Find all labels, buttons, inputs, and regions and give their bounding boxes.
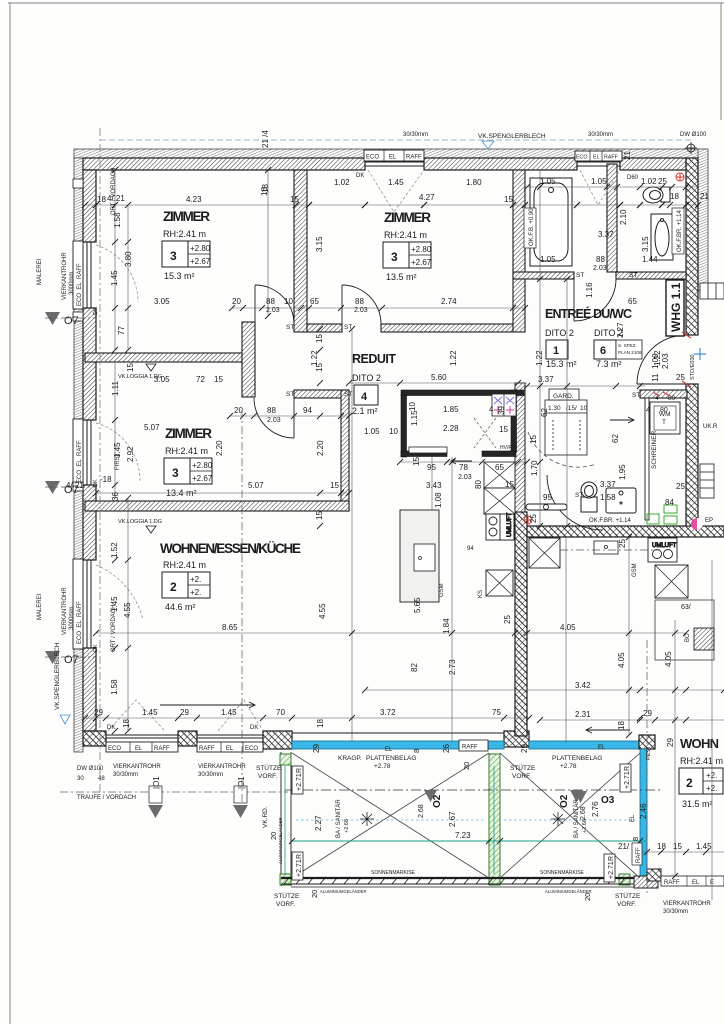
svg-text:DK: DK bbox=[356, 173, 364, 179]
svg-text:O7: O7 bbox=[64, 484, 79, 496]
exterior wall right upper bbox=[686, 158, 698, 335]
neighbor south wall block bbox=[634, 876, 658, 888]
door ZIMMER1 bbox=[255, 285, 294, 324]
dimension texts corridor 5.60 + 1.22 bbox=[310, 350, 662, 382]
svg-text:30/30mm: 30/30mm bbox=[198, 772, 223, 778]
svg-text:2.68: 2.68 bbox=[418, 804, 425, 818]
svg-text:1.45: 1.45 bbox=[110, 270, 119, 286]
kitchen hob circles + UMLUFT bbox=[486, 512, 514, 540]
svg-text:R: R bbox=[296, 854, 303, 859]
O7 marker 1 bbox=[45, 312, 96, 327]
dimension texts corridor row bbox=[154, 230, 658, 314]
dim line corridor row bbox=[232, 307, 525, 309]
svg-text:3: 3 bbox=[391, 250, 398, 264]
svg-text:RH:2.41 m: RH:2.41 m bbox=[680, 756, 723, 766]
svg-text:62: 62 bbox=[540, 408, 549, 417]
svg-text:STÜTZE: STÜTZE bbox=[615, 892, 641, 900]
svg-text:ECO: ECO bbox=[576, 155, 587, 161]
svg-text:2.28: 2.28 bbox=[443, 424, 459, 433]
corner pier neighbor window bbox=[639, 735, 655, 749]
svg-text:VK.SPENGLERBLECH: VK.SPENGLERBLECH bbox=[478, 133, 546, 140]
MALEREI labels bbox=[37, 258, 43, 620]
window left 2 glazing bbox=[83, 420, 96, 485]
svg-text:48: 48 bbox=[98, 776, 105, 782]
toilet WC top bbox=[643, 187, 670, 203]
svg-text:+2.80: +2.80 bbox=[192, 461, 213, 470]
svg-text:+2.68: +2.68 bbox=[344, 819, 350, 833]
svg-text:+2.71: +2.71 bbox=[624, 771, 631, 789]
svg-text:UMLUFT: UMLUFT bbox=[507, 512, 513, 537]
svg-text:65: 65 bbox=[310, 297, 319, 306]
balcony snowflake right bbox=[551, 812, 565, 826]
neighbor kitchen crossed box 2 bbox=[655, 565, 688, 598]
svg-text:EL: EL bbox=[593, 155, 600, 161]
svg-text:82: 82 bbox=[410, 663, 419, 672]
dim line 2.31 row bbox=[540, 719, 724, 721]
svg-text:BA / SANITÄR: BA / SANITÄR bbox=[573, 799, 580, 838]
svg-text:29: 29 bbox=[666, 738, 675, 747]
balcony middle column strip bbox=[489, 754, 500, 885]
svg-text:WOHN: WOHN bbox=[680, 736, 719, 751]
svg-text:25: 25 bbox=[676, 373, 685, 382]
svg-text:2.74: 2.74 bbox=[441, 297, 457, 306]
dim line bath row bbox=[527, 186, 698, 188]
svg-text:EL: EL bbox=[598, 745, 606, 751]
dimension texts rotated left side bbox=[110, 187, 650, 728]
schreiner niche left wall thin bbox=[645, 398, 649, 520]
REDUIT room walls bbox=[401, 390, 524, 457]
21/4 rotated top bbox=[261, 130, 632, 193]
washbasin DU/WC bbox=[606, 488, 636, 513]
svg-text:78: 78 bbox=[459, 463, 468, 472]
svg-text:20: 20 bbox=[310, 890, 319, 898]
svg-text:O2: O2 bbox=[559, 794, 570, 808]
svg-text:R: R bbox=[608, 856, 615, 861]
svg-text:1.70: 1.70 bbox=[530, 460, 539, 476]
bottom margin annotations bbox=[77, 745, 711, 915]
svg-text:RAFF: RAFF bbox=[604, 155, 619, 161]
svg-text:ECO: ECO bbox=[108, 746, 121, 752]
svg-text:15: 15 bbox=[126, 363, 135, 372]
svg-text:VIERKANTROHR: VIERKANTROHR bbox=[663, 901, 711, 907]
svg-text:30: 30 bbox=[77, 776, 84, 782]
svg-text:4.55: 4.55 bbox=[318, 603, 327, 619]
svg-text:+2.71: +2.71 bbox=[296, 859, 303, 877]
exterior wall top segment A bbox=[83, 158, 365, 170]
KS crossed box kitchen bbox=[486, 570, 513, 596]
KS labels bbox=[478, 590, 484, 598]
shower tray crossed bbox=[484, 462, 515, 488]
svg-text:3.37: 3.37 bbox=[538, 375, 554, 384]
svg-text:62: 62 bbox=[611, 434, 620, 443]
svg-text:4: 4 bbox=[655, 395, 659, 402]
window swing arcs dashed left wall bbox=[96, 245, 143, 620]
svg-text:ZIMMER: ZIMMER bbox=[165, 426, 212, 441]
wall right of ZIMMER2 / bath left bbox=[513, 170, 525, 332]
O7 marker 3 bbox=[45, 651, 96, 666]
DK labels left windows bbox=[93, 307, 99, 652]
svg-text:-18: -18 bbox=[100, 475, 112, 484]
svg-text:/15/: /15/ bbox=[566, 405, 577, 412]
svg-text:10: 10 bbox=[580, 405, 588, 412]
svg-text:STÜTZE: STÜTZE bbox=[510, 764, 536, 772]
svg-text:15: 15 bbox=[505, 480, 514, 489]
svg-text:8: 8 bbox=[631, 837, 640, 841]
svg-text:+2.67: +2.67 bbox=[411, 258, 432, 267]
svg-text:+2.78: +2.78 bbox=[374, 763, 391, 770]
svg-text:21: 21 bbox=[623, 151, 632, 160]
svg-text:29: 29 bbox=[180, 708, 189, 717]
svg-text:15: 15 bbox=[330, 481, 339, 490]
wall between ZIMMER1 and ZIMMER2 bbox=[294, 170, 307, 332]
vertical guide x452 bbox=[451, 457, 453, 741]
bath bottom wall east bbox=[616, 272, 686, 279]
svg-text:DK: DK bbox=[93, 479, 99, 487]
svg-text:+2.: +2. bbox=[190, 575, 201, 584]
svg-text:18: 18 bbox=[670, 192, 679, 201]
svg-text:EL: EL bbox=[692, 880, 700, 886]
svg-text:4.05: 4.05 bbox=[560, 623, 576, 632]
window left 3 glazing bbox=[83, 560, 96, 648]
svg-text:+2.80: +2.80 bbox=[190, 244, 211, 253]
svg-text:65: 65 bbox=[495, 463, 504, 472]
svg-text:13.5 m²: 13.5 m² bbox=[386, 272, 417, 282]
vertical guide x629 bbox=[628, 537, 630, 735]
VK.RD. label bbox=[262, 806, 269, 828]
svg-text:5.07: 5.07 bbox=[248, 481, 264, 490]
kitchen island bbox=[400, 510, 439, 602]
balcony blue dashed inner lines bbox=[296, 790, 636, 820]
svg-text:75: 75 bbox=[492, 708, 501, 717]
svg-text:MALEREI: MALEREI bbox=[37, 593, 43, 620]
svg-text:RAFF: RAFF bbox=[406, 155, 422, 161]
dimension texts bottom row bbox=[94, 708, 529, 753]
svg-text:44.6 m²: 44.6 m² bbox=[165, 602, 196, 612]
svg-text:2.03: 2.03 bbox=[267, 417, 281, 424]
toilet DU/WC bbox=[581, 482, 597, 512]
OK.F.BR +1.14 rotated WC bbox=[672, 208, 684, 254]
room label REDUIT bbox=[352, 352, 396, 416]
door bath bbox=[574, 279, 616, 321]
svg-text:30/30mm: 30/30mm bbox=[403, 132, 428, 138]
svg-text:1.05: 1.05 bbox=[591, 177, 607, 186]
svg-text:+2.71: +2.71 bbox=[296, 773, 303, 791]
svg-text:20: 20 bbox=[462, 762, 471, 770]
svg-text:18: 18 bbox=[261, 184, 270, 193]
exterior wall top segment B bbox=[424, 158, 577, 170]
roof edge strip top bbox=[74, 149, 700, 158]
svg-text:ST: ST bbox=[286, 324, 294, 331]
svg-text:RH:2.41 m: RH:2.41 m bbox=[165, 446, 208, 456]
svg-text:2.92: 2.92 bbox=[126, 446, 135, 462]
svg-text:VORF.: VORF. bbox=[276, 901, 295, 908]
svg-text:7.3 m²: 7.3 m² bbox=[596, 359, 622, 369]
svg-text:3000mm: 3000mm bbox=[69, 607, 75, 630]
neighbor dashdot horizontal y550 bbox=[560, 549, 660, 551]
REDUIT shelf bbox=[409, 447, 447, 453]
vertical guide x567 bbox=[566, 279, 568, 526]
ZIMMER1 bottom wall bbox=[85, 353, 242, 362]
svg-text:ST: ST bbox=[286, 391, 294, 398]
svg-text:1.58: 1.58 bbox=[600, 493, 616, 502]
svg-text:3.37: 3.37 bbox=[600, 480, 616, 489]
svg-text:VK.LOGGIA 1.DG: VK.LOGGIA 1.DG bbox=[118, 519, 162, 525]
svg-text:26: 26 bbox=[442, 744, 451, 753]
svg-text:2.10: 2.10 bbox=[619, 209, 628, 225]
svg-text:1.84: 1.84 bbox=[442, 618, 451, 634]
roof edge strip left bbox=[74, 158, 83, 752]
RAFF box rotated neighbor window bbox=[632, 843, 642, 865]
svg-text:ZIMMER: ZIMMER bbox=[163, 209, 210, 224]
svg-text:ST: ST bbox=[344, 391, 352, 398]
svg-text:25: 25 bbox=[618, 539, 627, 548]
svg-text:O3: O3 bbox=[601, 795, 615, 806]
svg-text:DK: DK bbox=[93, 644, 99, 652]
green electro boxes kitchen bbox=[647, 505, 677, 524]
DU/WC counter shelf bbox=[526, 504, 567, 510]
svg-text:2: 2 bbox=[686, 776, 693, 790]
room label ZIMMER 2 bbox=[383, 210, 432, 282]
svg-text:3.05: 3.05 bbox=[154, 297, 170, 306]
svg-text:VIERKANTROHR: VIERKANTROHR bbox=[62, 252, 68, 300]
svg-text:STÜTZE: STÜTZE bbox=[274, 892, 300, 900]
svg-text:94: 94 bbox=[467, 546, 474, 552]
svg-text:VIERKANTROHR: VIERKANTROHR bbox=[62, 587, 68, 635]
svg-text:O7: O7 bbox=[64, 315, 79, 327]
railing hatch ticks bbox=[284, 878, 625, 884]
svg-text:8.65: 8.65 bbox=[222, 623, 238, 632]
exterior wall left segment 4 bbox=[83, 648, 96, 731]
svg-text:95: 95 bbox=[543, 493, 552, 502]
WHG 1.1 box bbox=[666, 280, 684, 336]
svg-text:1.58: 1.58 bbox=[110, 679, 119, 695]
svg-text:KS: KS bbox=[478, 590, 484, 598]
svg-text:ENTREÉ DU/WC: ENTREÉ DU/WC bbox=[545, 306, 632, 321]
svg-text:+2.71: +2.71 bbox=[608, 861, 615, 879]
svg-text:DW Ø100: DW Ø100 bbox=[680, 132, 707, 138]
exterior wall top segment C bbox=[620, 158, 686, 170]
svg-text:VORF.: VORF. bbox=[512, 773, 531, 780]
svg-text:20: 20 bbox=[269, 832, 278, 840]
svg-text:HV/RV: HV/RV bbox=[500, 445, 516, 451]
balcony column SW bottom bbox=[280, 874, 291, 885]
svg-text:20: 20 bbox=[583, 893, 592, 901]
wall reduit east hatch bbox=[515, 383, 525, 512]
svg-text:29: 29 bbox=[520, 744, 529, 753]
dim line top row bbox=[85, 204, 698, 206]
svg-text:15: 15 bbox=[412, 457, 421, 466]
room label WOHN neighbor bbox=[679, 736, 723, 809]
svg-text:15: 15 bbox=[315, 511, 324, 520]
svg-text:3.05: 3.05 bbox=[154, 375, 170, 384]
corner block bottom-left crosshatch bbox=[83, 731, 106, 746]
svg-text:O2: O2 bbox=[432, 794, 443, 808]
svg-text:|O1: |O1 bbox=[237, 776, 246, 789]
dashed line top bbox=[100, 139, 692, 141]
WM T labels bbox=[655, 395, 676, 426]
balcony column SW top bbox=[280, 754, 291, 765]
svg-text:RAFF: RAFF bbox=[636, 847, 642, 863]
vertical guide x675 bbox=[674, 620, 676, 876]
svg-text:ST: ST bbox=[632, 392, 640, 399]
dimension texts wohnen bbox=[222, 623, 675, 747]
svg-text:11: 11 bbox=[651, 373, 660, 382]
svg-text:REDUIT: REDUIT bbox=[352, 352, 396, 366]
dimension slash ticks bbox=[82, 167, 724, 879]
dim line z3 bottom row bbox=[96, 492, 349, 494]
door ZIMMER3 bbox=[254, 398, 294, 438]
svg-text:PLATTENBELAG: PLATTENBELAG bbox=[366, 755, 416, 762]
svg-text:15.3 m²: 15.3 m² bbox=[546, 359, 577, 369]
OK.F.BR +1.14 kitchen text bbox=[589, 518, 632, 524]
REDUIT washer-dryer unit bbox=[492, 394, 516, 416]
svg-text:95: 95 bbox=[427, 463, 436, 472]
svg-text:EL: EL bbox=[389, 155, 397, 161]
shower dashed arc bbox=[528, 432, 596, 467]
dim line entree 3.37 bbox=[527, 385, 645, 387]
4/21 labels margin bbox=[107, 194, 125, 203]
dim line 3.42 row bbox=[365, 689, 724, 691]
kitchen party wall vertical bbox=[515, 512, 527, 736]
vertical left margin guides bbox=[114, 170, 116, 350]
svg-text:7.23: 7.23 bbox=[455, 831, 471, 840]
svg-text:18: 18 bbox=[617, 721, 626, 730]
svg-text:1.11: 1.11 bbox=[111, 380, 120, 396]
svg-text:MALEREI: MALEREI bbox=[37, 258, 43, 285]
svg-text:KRAGP.: KRAGP. bbox=[338, 755, 362, 762]
svg-text:2.27: 2.27 bbox=[314, 815, 323, 831]
REDUIT door dashed bbox=[474, 418, 496, 448]
svg-text:DK: DK bbox=[93, 307, 99, 315]
svg-text:4: 4 bbox=[361, 391, 368, 403]
bottom glazed wall blue WOHNEN bbox=[292, 733, 504, 751]
teal verticals at columns bbox=[285, 766, 494, 874]
section line O2-O2 bbox=[285, 790, 660, 802]
svg-text:84: 84 bbox=[665, 498, 674, 507]
window swing arcs dashed bottom wall bbox=[108, 700, 263, 731]
door kitchen passage arc bbox=[547, 475, 602, 530]
arrows wohnen bbox=[160, 417, 634, 733]
svg-text:UK.R: UK.R bbox=[703, 424, 718, 430]
svg-text:3000mm: 3000mm bbox=[69, 272, 75, 295]
roof edge strip right bbox=[698, 149, 708, 291]
O1 markers bbox=[148, 776, 248, 818]
svg-text:TRAUFE / VORDACH: TRAUFE / VORDACH bbox=[77, 795, 136, 801]
red circle mark kitchen bbox=[524, 516, 532, 524]
ZIMMER3 top wall east part bbox=[294, 390, 347, 398]
svg-text:1.05: 1.05 bbox=[540, 255, 556, 264]
dimension texts entree bbox=[503, 209, 685, 624]
svg-text:2.68: 2.68 bbox=[580, 806, 587, 820]
neighbor south pier bbox=[647, 869, 661, 881]
BA/SANITAER labels bbox=[335, 799, 588, 838]
svg-text:DW Ø100: DW Ø100 bbox=[77, 766, 104, 772]
svg-text:EL: EL bbox=[135, 746, 143, 752]
room label WOHNEN/ESSEN/KUECHE bbox=[160, 541, 301, 612]
svg-text:2.67: 2.67 bbox=[448, 811, 457, 827]
svg-text:3.80: 3.80 bbox=[124, 251, 133, 267]
balcony right X diagonals bbox=[500, 753, 640, 878]
green 20 labels bbox=[269, 749, 640, 901]
blind box left window 2 bbox=[73, 419, 83, 486]
svg-text:15: 15 bbox=[673, 842, 682, 851]
svg-text:+2.68: +2.68 bbox=[582, 819, 588, 833]
svg-text:ORT / VORDACH: ORT / VORDACH bbox=[111, 605, 117, 652]
section dashdot vertical x647 bbox=[646, 640, 648, 895]
KRAGP PLATTENBELAG labels bbox=[338, 745, 636, 822]
GSM labels bbox=[439, 546, 638, 597]
SONNENMARKISE labels bbox=[371, 870, 585, 876]
GARD closet bbox=[545, 389, 587, 455]
dimension texts z3 door row bbox=[154, 375, 312, 424]
teal measure line balcony bbox=[292, 831, 647, 841]
svg-text:DITO 2: DITO 2 bbox=[352, 373, 381, 383]
window top 2 glazing bbox=[577, 158, 620, 170]
svg-text:63/: 63/ bbox=[681, 604, 691, 611]
+2.71 R boxes bbox=[292, 764, 631, 882]
bottom blind box 2 bbox=[197, 742, 263, 752]
svg-text:1.02: 1.02 bbox=[641, 177, 657, 186]
svg-text:ST: ST bbox=[576, 272, 584, 279]
svg-text:15: 15 bbox=[315, 334, 324, 343]
svg-text:STO/E030: STO/E030 bbox=[690, 354, 696, 380]
svg-text:UMLUFT: UMLUFT bbox=[652, 543, 677, 549]
svg-text:1.52: 1.52 bbox=[110, 542, 119, 558]
O3 triangle bbox=[574, 791, 587, 803]
svg-text:SONNENMARKISE: SONNENMARKISE bbox=[540, 870, 585, 876]
svg-text:5.65: 5.65 bbox=[413, 597, 422, 613]
svg-text:OK.F.BR. +1.14: OK.F.BR. +1.14 bbox=[677, 209, 683, 252]
svg-text:21: 21 bbox=[700, 192, 709, 201]
svg-text:VORF.: VORF. bbox=[258, 773, 277, 780]
neighbor kitchen counter hatch block bbox=[655, 600, 714, 660]
dim line wohnen 8.65 bbox=[96, 632, 686, 634]
dim line balcony bottom labels bbox=[640, 851, 724, 853]
ALUMINIUMGELAENDER labels bbox=[278, 817, 592, 894]
svg-text:3: 3 bbox=[170, 249, 177, 263]
svg-text:+2.67: +2.67 bbox=[190, 257, 211, 266]
svg-text:18: 18 bbox=[316, 719, 325, 728]
svg-text:21/: 21/ bbox=[618, 842, 630, 851]
svg-text:2: 2 bbox=[170, 580, 177, 594]
svg-text:10: 10 bbox=[389, 427, 398, 436]
vertical guide x432 reduit bbox=[431, 457, 433, 510]
svg-text:4.23: 4.23 bbox=[186, 195, 202, 204]
svg-text:ECO EL RAFF: ECO EL RAFF bbox=[77, 601, 83, 644]
bathtub bbox=[530, 178, 572, 266]
svg-text:O7: O7 bbox=[64, 654, 79, 666]
neighbor west window blue vertical bbox=[640, 749, 647, 876]
GARD label bbox=[548, 393, 588, 412]
svg-text:ORT / VORDACH: ORT / VORDACH bbox=[111, 168, 117, 215]
washbasin WC top bbox=[651, 214, 673, 260]
svg-text:R: R bbox=[296, 768, 303, 773]
svg-text:1.45: 1.45 bbox=[142, 708, 158, 717]
svg-text:1: 1 bbox=[553, 345, 559, 357]
svg-text:25: 25 bbox=[529, 514, 538, 523]
svg-text:30/30mm: 30/30mm bbox=[663, 909, 688, 915]
svg-text:31.5 m²: 31.5 m² bbox=[682, 799, 713, 809]
vertical guide x540 bbox=[539, 170, 541, 526]
svg-text:ST: ST bbox=[575, 492, 583, 499]
svg-text:VIERKANTROHR: VIERKANTROHR bbox=[113, 764, 161, 770]
svg-text:88: 88 bbox=[267, 406, 276, 415]
neighbor kitchen crossed box bbox=[529, 538, 560, 568]
blue cross symbol right bbox=[694, 348, 706, 360]
step wall corridor west bbox=[242, 322, 255, 397]
svg-text:2.03: 2.03 bbox=[593, 265, 607, 272]
vertical guide x352 bbox=[351, 329, 353, 741]
